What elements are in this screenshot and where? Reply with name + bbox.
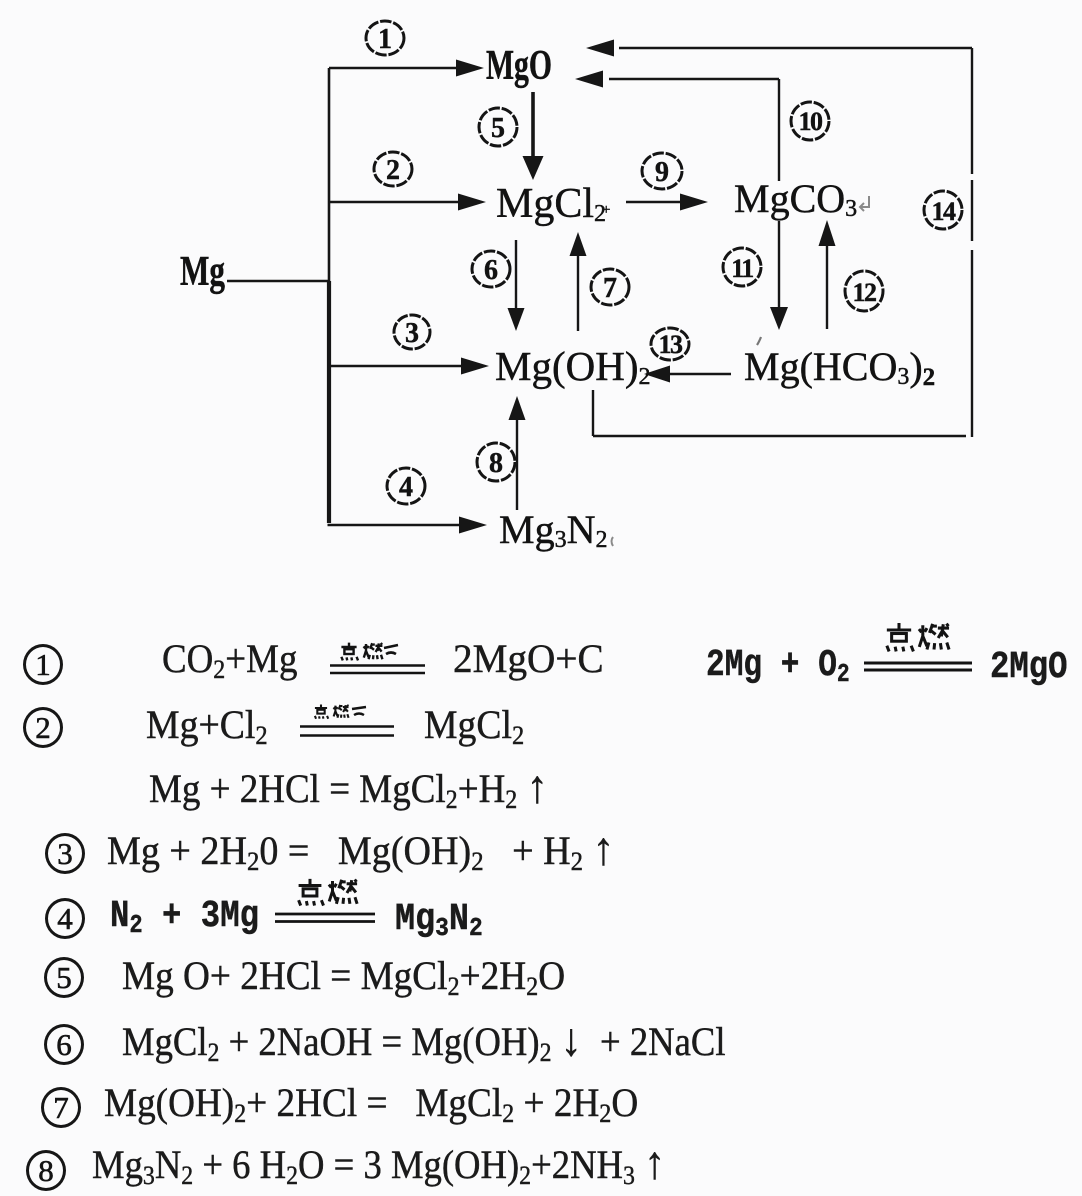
- equation 2 circled label: [23, 707, 63, 748]
- ignition unit eq4: [275, 878, 377, 928]
- svg-text:4: 4: [399, 472, 413, 503]
- equation 6 circled label: [44, 1024, 84, 1065]
- wire 14 bottom run: [593, 435, 966, 437]
- equation 7: [104, 1079, 638, 1127]
- equation 2 product: [424, 701, 524, 749]
- wire arrow 3 to Mg(OH)2: [329, 365, 466, 367]
- svg-text:6: 6: [484, 255, 498, 286]
- equation 4 reactants (bitmap style): [110, 894, 259, 940]
- diagram: magnesium compound transformations: [0, 0, 1082, 590]
- svg-text:10: 10: [799, 107, 824, 136]
- ignition unit eq1-right: [864, 621, 974, 673]
- artifact return mark after MgCO3: [860, 196, 869, 211]
- ignition unit eq1: [327, 640, 431, 680]
- label 4: [387, 468, 425, 504]
- svg-text:1: 1: [378, 24, 392, 55]
- label 14: [924, 191, 962, 229]
- wire arrow 4 to Mg3N2: [328, 524, 465, 526]
- svg-text:8: 8: [489, 448, 503, 479]
- equation 3 circled label: [45, 833, 85, 874]
- label 2: [374, 152, 412, 186]
- equation 5 circled label: [44, 957, 84, 998]
- wire arrow 7 Mg(OH)2 up to MgCl2: [577, 254, 579, 331]
- label 7: [591, 269, 629, 305]
- svg-text:2: 2: [386, 155, 400, 186]
- symbol defs for ignition condition glyphs: [0, 0, 1, 1]
- equation 8 circled label: [26, 1150, 66, 1191]
- arrowhead 11 down: [770, 307, 788, 330]
- equation 8: [92, 1135, 665, 1190]
- label 12: [845, 271, 883, 311]
- svg-text:5: 5: [491, 113, 505, 144]
- svg-text:9: 9: [655, 157, 669, 188]
- wire trunk upper: [328, 68, 331, 281]
- arrowhead 5 down: [523, 156, 544, 180]
- equation 2: [146, 701, 268, 749]
- arrowhead 4: [459, 517, 487, 534]
- equation 1 right (bitmap style): [706, 643, 850, 689]
- equation 4 product (bitmap style): [395, 897, 483, 943]
- arrowhead 14 left: [586, 40, 614, 57]
- svg-text:MgCO3: MgCO3: [734, 176, 857, 222]
- wire arrow 8 Mg3N2 up to Mg(OH)2: [516, 418, 518, 510]
- wire trunk lower: [327, 281, 331, 523]
- wire arrow 1 to MgO: [329, 67, 461, 69]
- wire arrow 11 MgCO3 down to Mg(HCO3)2: [778, 221, 780, 309]
- equation 4 circled label: [45, 898, 85, 939]
- equation 7 circled label: [41, 1087, 81, 1128]
- svg-text:Mg: Mg: [180, 249, 225, 295]
- circled digit labels 1-14: [378, 24, 956, 503]
- arrowhead 6 down: [508, 308, 525, 331]
- wire Mg to trunk: [227, 280, 330, 282]
- wire arrow 5 MgO down to MgCl2: [531, 92, 535, 158]
- svg-text:Mg(OH)2: Mg(OH)2: [495, 343, 650, 390]
- arrowhead 8 up: [509, 396, 526, 420]
- wire arrow 12 Mg(HCO3)2 up to MgCO3: [826, 244, 828, 329]
- svg-text:7: 7: [603, 273, 617, 304]
- label 5: [479, 108, 517, 146]
- ignition unit eq2: [298, 704, 398, 740]
- svg-text:3: 3: [405, 318, 419, 349]
- artifact tick above Mg(HCO3)2: [757, 337, 761, 345]
- label 9: [642, 153, 682, 189]
- svg-text:MgO: MgO: [486, 43, 552, 89]
- equation 1 product: [453, 635, 604, 683]
- label 11: [723, 248, 761, 286]
- arrowhead 13 left: [644, 366, 670, 383]
- wire arrow 6 MgCl2 down to Mg(OH)2: [515, 240, 517, 310]
- label 3: [394, 315, 430, 349]
- svg-text:MgCl2: MgCl2: [496, 181, 606, 227]
- arrowhead 1: [456, 60, 484, 77]
- equation 1 right product: [990, 645, 1068, 691]
- arrowhead 12 up: [819, 220, 836, 246]
- label 8: [477, 443, 515, 481]
- wire arrow 14 elbow Mg(OH)2 to MgO : top run: [619, 47, 972, 49]
- label 13: [651, 328, 689, 360]
- svg-text:14: 14: [932, 197, 957, 226]
- arrowhead 9: [680, 194, 708, 211]
- equation 6: [122, 1012, 726, 1067]
- equation 5: [122, 952, 565, 1000]
- svg-text:11: 11: [731, 254, 753, 283]
- svg-text:12: 12: [853, 278, 877, 307]
- svg-text:Mg3N2: Mg3N2: [499, 507, 607, 553]
- arrowhead 10 left: [575, 71, 603, 88]
- arrowhead 2: [458, 194, 486, 211]
- wire arrow 2 to MgCl2: [329, 201, 463, 203]
- equation 1 left: [162, 635, 297, 683]
- svg-text:+: +: [602, 202, 610, 218]
- circled labels: [366, 21, 962, 504]
- wire arrow 10 elbow MgCO3 to MgO: [609, 78, 779, 80]
- wire arrow 9 MgCl2 to MgCO3: [626, 201, 682, 203]
- wire 14 right vertical (with scan gaps): [971, 48, 973, 174]
- equation 1 circled label: [23, 644, 63, 685]
- equation 2b: [149, 759, 548, 814]
- svg-text:Mg(HCO3)2: Mg(HCO3)2: [744, 344, 935, 391]
- wire 14 stub below Mg(OH)2: [592, 390, 594, 436]
- equation 3: [107, 821, 614, 876]
- artifact tick after Mg3N2: [612, 537, 614, 546]
- label 10: [791, 102, 829, 140]
- wire arrow 13 Mg(HCO3)2 to Mg(OH)2: [668, 373, 731, 375]
- label 6: [472, 251, 510, 287]
- arrowhead 3: [461, 358, 489, 375]
- svg-text:13: 13: [659, 330, 684, 359]
- label 1: [366, 21, 404, 55]
- arrowhead 7 up: [570, 232, 587, 256]
